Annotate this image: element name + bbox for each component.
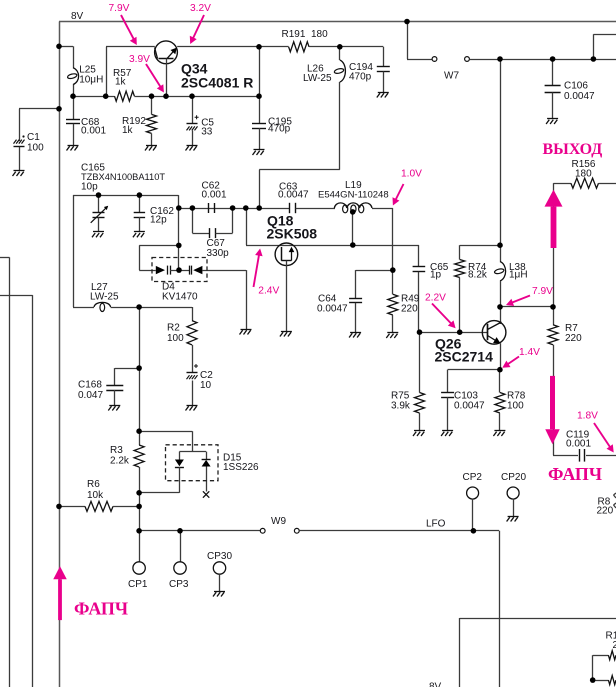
svg-text:10: 10 (200, 380, 212, 391)
svg-text:10μH: 10μH (79, 75, 103, 86)
svg-text:C106: C106 (564, 81, 588, 92)
svg-text:330p: 330p (207, 248, 230, 259)
svg-text:470p: 470p (268, 124, 291, 135)
svg-text:2.4V: 2.4V (258, 286, 279, 297)
svg-text:12p: 12p (150, 215, 167, 226)
svg-text:TZBX4N100BA110T: TZBX4N100BA110T (81, 172, 165, 182)
svg-text:2.2k: 2.2k (110, 456, 130, 467)
svg-text:KV1470: KV1470 (162, 292, 198, 303)
svg-text:7.9V: 7.9V (109, 3, 130, 14)
svg-text:0.001: 0.001 (81, 125, 106, 136)
svg-text:ФАПЧ: ФАПЧ (548, 464, 602, 484)
svg-text:3.9k: 3.9k (391, 401, 411, 412)
svg-text:0.0047: 0.0047 (564, 91, 595, 102)
svg-text:0.001: 0.001 (202, 189, 227, 200)
svg-text:1k: 1k (122, 125, 134, 136)
svg-text:1k: 1k (115, 77, 127, 88)
svg-text:3.2V: 3.2V (190, 3, 211, 14)
svg-text:1SS226: 1SS226 (223, 462, 259, 473)
svg-text:R191: R191 (282, 29, 306, 40)
svg-text:100: 100 (27, 143, 44, 154)
svg-text:8.2k: 8.2k (468, 270, 488, 281)
svg-text:1μH: 1μH (509, 270, 528, 281)
svg-text:ФАПЧ: ФАПЧ (74, 599, 128, 619)
svg-text:CP2: CP2 (463, 472, 483, 483)
svg-text:W7: W7 (444, 71, 459, 82)
svg-text:3.9V: 3.9V (129, 54, 150, 65)
svg-text:100: 100 (507, 401, 524, 412)
svg-text:CP1: CP1 (128, 579, 148, 590)
svg-text:2.2V: 2.2V (425, 293, 446, 304)
svg-text:100: 100 (167, 333, 184, 344)
svg-text:2SK508: 2SK508 (267, 226, 318, 242)
svg-text:CP20: CP20 (501, 472, 526, 483)
svg-text:R2: R2 (167, 323, 180, 334)
svg-text:LFO: LFO (426, 519, 446, 530)
svg-text:1.0V: 1.0V (401, 169, 422, 180)
svg-text:C168: C168 (78, 380, 102, 391)
svg-text:LW-25: LW-25 (90, 292, 119, 303)
svg-text:1.4V: 1.4V (519, 347, 540, 358)
svg-text:220: 220 (401, 304, 418, 315)
svg-text:0.001: 0.001 (566, 438, 591, 449)
svg-text:W9: W9 (271, 516, 286, 527)
svg-text:220: 220 (565, 333, 582, 344)
svg-text:2SC4081 R: 2SC4081 R (181, 74, 253, 90)
svg-text:10p: 10p (81, 182, 98, 193)
svg-text:8V: 8V (429, 682, 442, 688)
svg-text:2SC2714: 2SC2714 (435, 349, 494, 365)
svg-text:LW-25: LW-25 (303, 73, 332, 84)
svg-text:0.0047: 0.0047 (278, 190, 309, 201)
svg-text:1.8V: 1.8V (577, 411, 598, 422)
svg-text:ВЫХОД: ВЫХОД (543, 141, 603, 158)
svg-text:220: 220 (597, 506, 614, 517)
svg-text:10k: 10k (87, 490, 104, 501)
svg-text:2: 2 (613, 640, 616, 651)
svg-text:C1: C1 (27, 132, 40, 143)
svg-text:0.0047: 0.0047 (317, 304, 348, 315)
svg-text:CP30: CP30 (207, 551, 232, 562)
svg-text:180: 180 (575, 168, 592, 179)
svg-text:180: 180 (311, 29, 328, 40)
svg-text:R6: R6 (87, 479, 100, 490)
svg-text:7.9V: 7.9V (532, 286, 553, 297)
svg-text:33: 33 (201, 127, 213, 138)
svg-text:CP3: CP3 (169, 579, 189, 590)
svg-text:1p: 1p (430, 270, 442, 281)
svg-text:0.0047: 0.0047 (454, 401, 485, 412)
svg-text:470p: 470p (349, 72, 372, 83)
svg-text:E544GN-110248: E544GN-110248 (318, 190, 389, 201)
svg-text:R3: R3 (110, 445, 123, 456)
svg-text:8V: 8V (71, 11, 84, 22)
svg-text:0.047: 0.047 (78, 390, 103, 401)
